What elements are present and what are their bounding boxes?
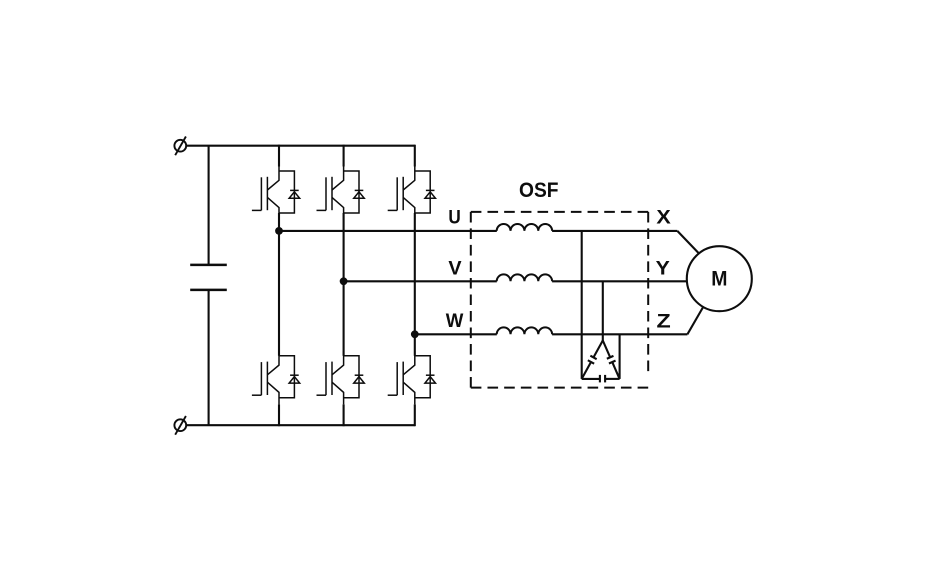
svg-text:W: W xyxy=(446,310,464,332)
svg-text:Y: Y xyxy=(656,258,670,280)
svg-text:Z: Z xyxy=(657,311,671,333)
svg-text:V: V xyxy=(448,257,461,279)
svg-text:M: M xyxy=(711,267,727,290)
svg-text:OSF: OSF xyxy=(519,178,559,202)
svg-text:U: U xyxy=(448,206,460,228)
svg-text:X: X xyxy=(656,207,670,229)
